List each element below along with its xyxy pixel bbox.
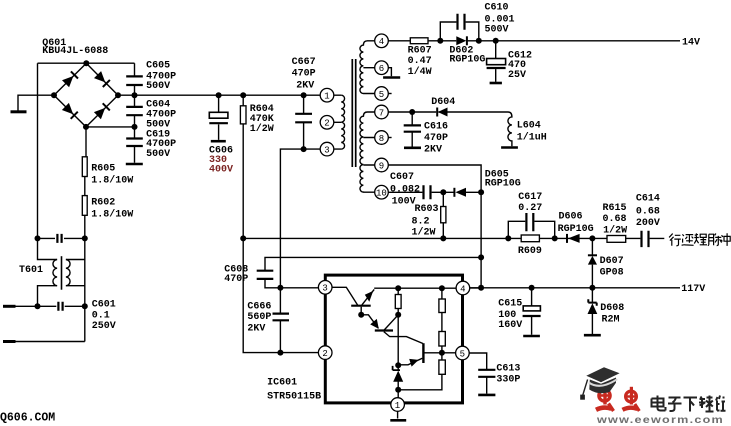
label Q601 (42, 38, 108, 57)
wire pin4 row to 14V (388, 40, 680, 42)
svg-text:R607: R607 (408, 46, 432, 57)
svg-text:R2M: R2M (602, 315, 620, 326)
wire C608 top link y=257.4 (265, 257, 481, 270)
svg-text:R603: R603 (415, 204, 439, 215)
transformer pin 1 (320, 88, 334, 102)
svg-text:C605: C605 (146, 61, 170, 72)
IC transistor Qa (351, 289, 374, 314)
wire 117V rail (470, 287, 680, 289)
junction C601 right (82, 303, 88, 309)
junction C608 link right (478, 254, 484, 260)
junction C617 left (505, 235, 511, 241)
IC pin 3 (318, 281, 332, 295)
svg-text:1: 1 (324, 92, 329, 102)
label C667 (292, 57, 316, 92)
terminal bar C613 bottom (478, 394, 495, 397)
logo red worm characters 虫虫 (596, 385, 639, 411)
label C613 (496, 363, 520, 385)
svg-text:KBU4JL-6088: KBU4JL-6088 (42, 46, 108, 57)
svg-text:500V: 500V (146, 81, 170, 92)
label D604 (431, 97, 455, 108)
resistor R609 (521, 235, 539, 242)
svg-text:2KV: 2KV (424, 144, 442, 155)
svg-text:560P: 560P (247, 312, 271, 323)
svg-text:C617: C617 (518, 192, 542, 203)
svg-text:14V: 14V (682, 37, 700, 48)
capacitor C604 (126, 95, 143, 127)
svg-text:C614: C614 (636, 193, 660, 204)
svg-text:2KV: 2KV (247, 323, 265, 334)
label C612 (508, 50, 532, 81)
svg-text:1/2W: 1/2W (603, 225, 627, 237)
junction Ra top (395, 285, 401, 291)
bridge rectifier Q601 diamond edges (54, 63, 118, 127)
svg-text:500V: 500V (485, 25, 509, 36)
junction C604/C619 (132, 124, 138, 130)
junction R604 on main line (240, 92, 246, 98)
label C607 (390, 172, 420, 208)
bridge diode BL (62, 103, 78, 119)
svg-text:1/2W: 1/2W (250, 123, 274, 135)
label R607 (408, 46, 432, 79)
transformer pin 4 (375, 34, 389, 48)
watermark Q606.COM (0, 412, 55, 425)
wire junction to IC pin3 (280, 287, 318, 289)
svg-text:10: 10 (376, 189, 387, 199)
svg-text:117V: 117V (681, 284, 705, 295)
junction T601 top left (35, 235, 41, 241)
transformer pin 2 (320, 116, 334, 130)
AC terminal lower (3, 340, 16, 343)
svg-text:C615: C615 (498, 298, 522, 309)
label IC601 (267, 378, 321, 403)
svg-text:2: 2 (322, 349, 327, 359)
capacitor C616 (404, 112, 421, 147)
svg-text:C616: C616 (424, 122, 448, 133)
terminal bar C606 bottom (211, 140, 226, 143)
svg-text:1/1uH: 1/1uH (517, 132, 547, 144)
svg-text:C601: C601 (92, 300, 116, 311)
svg-text:GP08: GP08 (600, 268, 624, 279)
svg-text:C610: C610 (485, 3, 509, 14)
svg-text:0.68: 0.68 (603, 214, 627, 225)
junction D606/D607 (589, 235, 595, 241)
wire pin7 row (388, 111, 447, 113)
svg-text:1/2W: 1/2W (412, 226, 436, 238)
svg-text:5: 5 (379, 90, 384, 100)
svg-text:7: 7 (379, 108, 384, 118)
resistor R607 (410, 38, 428, 44)
node bridge bottom (83, 124, 89, 130)
label R605 (91, 163, 133, 186)
svg-text:C667: C667 (292, 57, 316, 68)
svg-text:500V: 500V (146, 149, 170, 160)
resistor R603 (441, 192, 446, 238)
diode D605 (443, 188, 481, 197)
junction Qa emitter node (358, 312, 364, 318)
wire transformer pin3 to down-column (280, 149, 320, 288)
svg-text:2KV: 2KV (296, 81, 314, 92)
capacitor C606 electrolytic (209, 95, 228, 140)
label C619 (146, 130, 176, 160)
IC transistor Qc power (398, 343, 455, 366)
junction C612 (493, 38, 499, 44)
diode D606 (567, 234, 580, 243)
junction Ra bottom / Qb collector (395, 312, 401, 318)
junction 117V/C615 (529, 285, 535, 291)
transformer pin 10 (375, 185, 389, 199)
svg-text:400V: 400V (209, 165, 233, 176)
transformer primary winding pins 1-3 (334, 95, 345, 149)
resistor R604 (240, 95, 246, 238)
label R615 (603, 203, 628, 237)
capacitor C613 (478, 370, 495, 394)
IC internal top rail (374, 287, 456, 289)
IC Qa emitter arrow to Qb (361, 315, 379, 329)
junction R603 bottom (440, 235, 446, 241)
wire main B+ line y=95.2 (118, 94, 320, 96)
svg-text:R615: R615 (603, 203, 627, 214)
logo graduation cap (580, 367, 619, 399)
label C601 (92, 300, 116, 332)
terminal bar C619 bottom (126, 163, 143, 166)
svg-text:T601: T601 (19, 265, 43, 276)
resistor R602 (82, 196, 87, 216)
svg-text:RGP10G: RGP10G (449, 55, 485, 66)
label 117V (681, 284, 705, 295)
junction C616 (409, 109, 415, 115)
label D605 (485, 170, 521, 190)
svg-text:4: 4 (460, 284, 465, 294)
wire pin5 to C613 (469, 353, 487, 370)
svg-text:IC601: IC601 (267, 378, 297, 389)
svg-text:0.1: 0.1 (92, 310, 110, 321)
svg-text:1: 1 (395, 401, 400, 411)
svg-text:STR50115B: STR50115B (267, 391, 321, 402)
IC pin 4 (456, 281, 470, 295)
label C605 (146, 61, 176, 93)
junction C601 left (35, 303, 41, 309)
junction C667 on main line (301, 92, 307, 98)
svg-text:4: 4 (379, 37, 384, 47)
label C614 (636, 193, 660, 229)
label L604 (517, 121, 547, 144)
junction 117V/x481 (478, 285, 484, 291)
svg-text:0.082: 0.082 (390, 184, 420, 195)
svg-text:R602: R602 (91, 197, 115, 208)
capacitor C666 (273, 314, 290, 353)
wire C601 line y=306.3 (16, 305, 85, 307)
svg-text:100V: 100V (392, 197, 416, 208)
zener D608 (588, 288, 598, 334)
diode D602 (456, 36, 467, 45)
svg-text:D608: D608 (600, 303, 624, 314)
wire R605 to R602 (84, 177, 86, 196)
svg-text:L604: L604 (517, 121, 541, 132)
svg-text:RGP10G: RGP10G (558, 224, 594, 235)
ground D608 (584, 334, 601, 337)
stub pin8 unused (388, 137, 391, 139)
svg-text:1.8/10W: 1.8/10W (91, 175, 133, 187)
label D607 (600, 256, 624, 279)
svg-text:250V: 250V (92, 321, 116, 332)
IC pin3 internal lead (332, 287, 358, 305)
capacitor T601 top coupling (57, 234, 61, 243)
terminal bar C616 bottom (404, 147, 421, 150)
svg-text:470P: 470P (292, 69, 316, 80)
junction pin3 column y=287.8 (277, 285, 283, 291)
wire feedback line y=238.4 (243, 237, 664, 239)
terminal bar C615 bottom (523, 335, 540, 338)
wire x=481 column down to 117V rail (480, 192, 482, 287)
svg-text:1/4W: 1/4W (408, 66, 432, 78)
svg-text:9: 9 (379, 161, 384, 171)
label C666 (247, 302, 271, 335)
transformer T601 left winding (38, 238, 58, 306)
AC terminal upper (3, 305, 16, 308)
wire left AC vertical x=37.5 (37, 63, 39, 238)
junction D605 right on x=481 column (478, 189, 484, 195)
label C610 (485, 3, 515, 36)
resistor R615 (607, 236, 626, 243)
transformer T601 right winding (66, 238, 85, 341)
wire R604 column down to IC pin2 (243, 238, 318, 352)
junction C667 bottom on pin3 wire (301, 146, 307, 152)
ground at pin6 (383, 68, 400, 78)
logo black site name 电子下载站 (652, 396, 726, 412)
label C617 (518, 192, 542, 214)
label C606 (209, 145, 233, 175)
svg-text:2: 2 (324, 119, 329, 129)
wire pin3 column down to C666 (279, 288, 281, 314)
label D602 (449, 46, 485, 66)
IC pin 2 (318, 346, 332, 360)
junction C606 on main line (216, 92, 222, 98)
capacitor C617 loop (508, 213, 554, 238)
svg-text:5: 5 (460, 349, 465, 359)
svg-text:R605: R605 (91, 163, 115, 174)
svg-text:R609: R609 (518, 246, 542, 257)
wire pin1 to ground (397, 411, 399, 418)
capacitor C607 (424, 185, 444, 199)
label R602 (91, 197, 133, 220)
wire bridge bottom to cap column (86, 126, 135, 128)
junction T601 top right (82, 235, 88, 241)
transformer secondary winding pins 7-10 (360, 112, 375, 192)
ground IC pin1 (390, 419, 406, 422)
capacitor C667 (295, 95, 312, 149)
wire Dz bottom to pin1 (397, 390, 399, 398)
svg-text:C613: C613 (496, 363, 520, 374)
transformer pin 8 (375, 131, 389, 145)
ground bridge left (11, 110, 27, 113)
svg-text:D606: D606 (559, 212, 583, 223)
svg-text:3: 3 (324, 145, 329, 155)
label C615 (498, 298, 522, 331)
svg-text:160V: 160V (498, 320, 522, 331)
junction Dz bottom (395, 387, 401, 393)
junction C610 left (437, 38, 443, 44)
bridge diode TR (94, 71, 110, 87)
diode D607 (588, 238, 597, 287)
svg-text:www.eeworm.com: www.eeworm.com (596, 415, 724, 426)
IC pin 1 (391, 398, 405, 412)
terminal bar C612 bottom (490, 82, 502, 85)
svg-text:0.27: 0.27 (518, 203, 542, 214)
wire lower AC to T601 right (16, 341, 85, 343)
IC601 box (325, 275, 462, 403)
transformer secondary winding pins 4-5 (360, 41, 375, 94)
transformer core lines (352, 59, 355, 167)
wire top-left horizontal from AC vertical to C605 column (38, 62, 135, 64)
svg-text:D604: D604 (431, 97, 455, 108)
svg-text:470P: 470P (424, 133, 448, 144)
capacitor C601 (58, 302, 62, 311)
svg-text:3: 3 (322, 284, 327, 294)
label C608 (224, 264, 248, 285)
label T601 (19, 265, 43, 276)
capacitor C605 (126, 63, 143, 95)
junction C617 right (552, 235, 558, 241)
svg-text:RGP10G: RGP10G (485, 179, 521, 190)
node bridge left (51, 92, 57, 98)
node bridge top (83, 60, 89, 66)
svg-text:0.47: 0.47 (408, 56, 432, 67)
svg-text:C607: C607 (390, 172, 414, 183)
svg-text:25V: 25V (508, 70, 526, 81)
svg-text:6: 6 (379, 64, 384, 74)
transformer pin 5 (375, 87, 389, 101)
label flyback pulse (Chinese 行逆程脉冲) (669, 233, 730, 246)
wire pin9 to D605 column (388, 165, 481, 192)
capacitor C615 electrolytic (523, 288, 541, 335)
IC zener Dz (393, 365, 404, 390)
transformer pin 6 (375, 61, 389, 75)
svg-text:330P: 330P (496, 374, 520, 385)
diode D604 (437, 108, 447, 117)
wire R602 down to T601 top link (84, 215, 86, 238)
junction C605/C604 on main line (132, 92, 138, 98)
junction C610 right (476, 38, 482, 44)
label C604 (146, 99, 176, 130)
IC transistor Qb (375, 315, 423, 344)
wire bridge left node to ground (18, 95, 54, 111)
junction Rb bottom pin5 line (439, 350, 445, 356)
capacitor C614 (642, 231, 649, 247)
bridge diode BR (94, 103, 110, 119)
svg-text:200V: 200V (636, 218, 660, 229)
wire pin4 to 117V rail (470, 287, 481, 289)
junction C607/R603 (440, 189, 446, 195)
wire pin10 to C607 (388, 191, 422, 193)
label D606 (558, 212, 594, 236)
junction R604 bottom (240, 235, 246, 241)
stub pin5 unused (388, 93, 391, 95)
svg-text:D607: D607 (600, 256, 624, 267)
label R604 (250, 104, 274, 135)
label R603 (412, 204, 439, 238)
junction Rb top (439, 285, 445, 291)
svg-text:8.2: 8.2 (412, 216, 430, 227)
capacitor C612 electrolytic (487, 41, 506, 82)
IC resistors Rb column (439, 288, 445, 353)
transformer pin 3 (320, 142, 334, 156)
junction C666 bottom (277, 350, 283, 356)
inductor L604 (508, 112, 512, 146)
resistor R605 (82, 157, 87, 177)
svg-text:1.8/10W: 1.8/10W (91, 209, 133, 221)
transformer T601 core (61, 256, 63, 290)
svg-text:470P: 470P (224, 274, 248, 285)
wire D604 to L604 (448, 111, 509, 113)
label 14V (682, 37, 700, 48)
logo url www.eeworm.com (596, 415, 724, 426)
transformer pin 7 (375, 105, 389, 119)
junction 117V/D608 (589, 285, 595, 291)
capacitor C610 loop (440, 14, 479, 41)
wire bridge bottom down to R605 (85, 127, 87, 157)
bridge diode TL (62, 71, 78, 87)
wire T601 top link y=238.4 (38, 237, 85, 239)
label C616 (424, 122, 448, 156)
svg-text:8: 8 (379, 134, 384, 144)
svg-text:0.68: 0.68 (636, 206, 660, 217)
ground L604 (501, 146, 518, 149)
capacitor C608 (257, 271, 281, 288)
label D608 (600, 303, 624, 326)
label R609 (518, 246, 542, 257)
svg-text:Q606.COM: Q606.COM (0, 412, 55, 425)
transformer pin 9 (375, 158, 389, 172)
capacitor C619 (126, 127, 143, 163)
IC pin 5 (456, 346, 470, 360)
node bridge right (115, 92, 121, 98)
IC resistor Rc (398, 353, 445, 390)
IC resistor Ra (395, 288, 401, 365)
junction Qc emitter (395, 362, 401, 368)
